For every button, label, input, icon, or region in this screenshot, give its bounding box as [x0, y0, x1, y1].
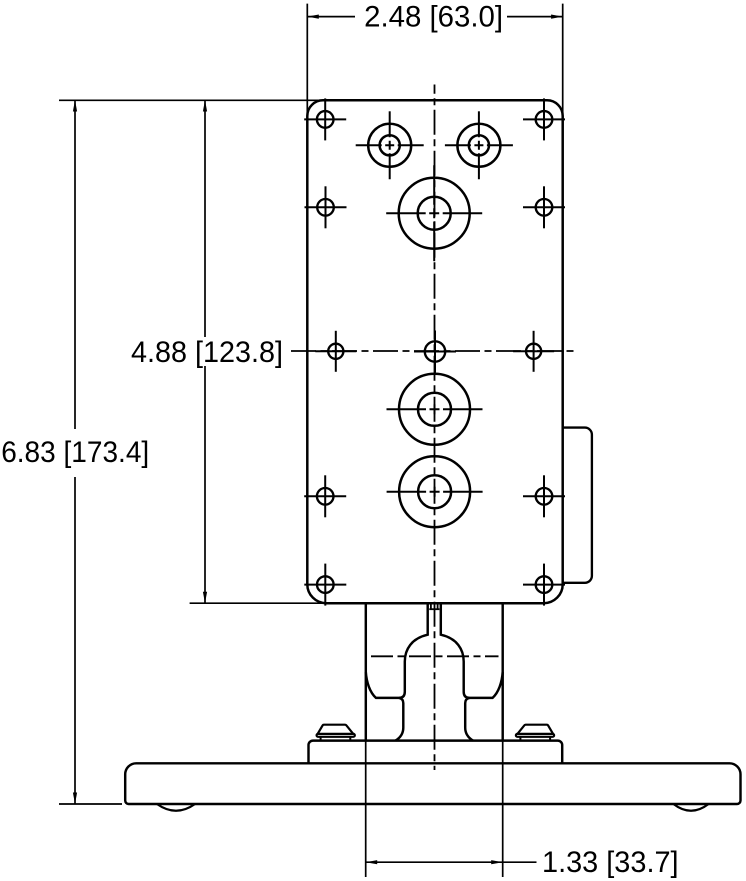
pedestal left half	[366, 603, 428, 740]
mounting hole H8 mid-left lower	[304, 475, 346, 517]
svg-text:6.83 [173.4]: 6.83 [173.4]	[1, 436, 149, 469]
dimension 2.48 [63.0] top	[307, 1, 562, 116]
base plate	[125, 763, 740, 804]
mounting hole H11 bottom-right	[523, 564, 565, 606]
pedestal right half	[441, 603, 503, 740]
panel outline	[307, 100, 562, 603]
svg-text:2.48 [63.0]: 2.48 [63.0]	[364, 1, 503, 34]
connector J1 upper-left medium	[356, 111, 424, 179]
screw S1 left	[317, 725, 355, 741]
connector J2 upper-right medium	[445, 111, 513, 179]
dimension 6.83 [173.4] left	[1, 100, 323, 804]
mounting plate	[309, 741, 563, 764]
dimension 4.88 [123.8] left inner	[131, 100, 326, 603]
mounting hole H3 mid-left upper	[305, 186, 347, 228]
connector J5 large lower	[387, 456, 483, 527]
vertical centerline	[434, 85, 436, 771]
svg-text:4.88 [123.8]: 4.88 [123.8]	[131, 336, 283, 369]
pedestal stem notch	[429, 603, 439, 609]
connector J4 large middle	[387, 374, 483, 445]
foot F2 right	[674, 804, 709, 811]
screw S2 right	[516, 725, 554, 741]
mounting hole H6 center-row middle	[414, 331, 456, 373]
connector J3 large upper	[386, 165, 482, 261]
side tab	[563, 428, 592, 583]
mounting hole H2 top-right	[523, 98, 565, 140]
mounting hole H9 mid-right lower	[523, 475, 565, 517]
mounting hole H1 top-left	[304, 98, 346, 140]
dimension 1.33 [33.7] bottom	[366, 741, 679, 879]
mounting hole H5 center-row left	[315, 331, 356, 372]
foot F1 left	[157, 804, 195, 811]
mounting hole H10 bottom-left	[304, 564, 346, 606]
mounting hole H4 mid-right upper	[523, 186, 565, 228]
svg-text:1.33 [33.7]: 1.33 [33.7]	[542, 846, 679, 879]
pedestal horizontal centerline	[371, 655, 499, 657]
mounting hole H7 center-row right	[513, 331, 554, 372]
horizontal centerline row3	[291, 350, 574, 352]
